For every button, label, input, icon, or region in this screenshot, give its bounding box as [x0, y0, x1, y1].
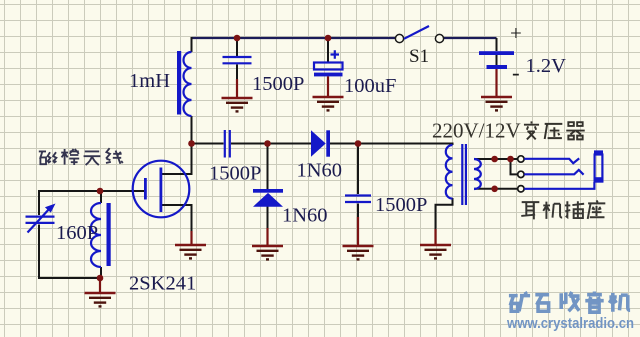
svg-text:1N60: 1N60	[282, 205, 328, 227]
ground under shunt diode	[266, 228, 268, 246]
capacitor 1500P top plates	[223, 57, 252, 63]
ground under FET source	[190, 231, 192, 245]
wire transformer primary bottom	[436, 198, 453, 230]
wire C1 pin from rail	[236, 38, 238, 56]
wire C3 branch down	[357, 144, 359, 195]
wire connector middle branch	[511, 159, 518, 174]
svg-text:+: +	[510, 21, 522, 45]
antenna coil winding	[91, 203, 101, 267]
svg-text:1.2V: 1.2V	[526, 55, 567, 77]
wire mid rail segment dot to series cap	[192, 143, 224, 145]
capacitor 1500P shunt plates	[345, 196, 371, 203]
antenna coil core bar	[107, 203, 111, 266]
switch S1 left terminal	[395, 34, 403, 42]
junction dot secondary bottom	[491, 186, 498, 193]
junction dot D2	[264, 140, 271, 147]
label cizhang antenna text	[39, 148, 123, 165]
switch S1 right terminal	[435, 34, 443, 42]
wire top rail left segment	[192, 37, 396, 39]
inductor 1mH winding	[184, 52, 192, 116]
label headphone jack text	[521, 200, 605, 219]
svg-text:1mH: 1mH	[129, 70, 170, 92]
ground under 100uF	[327, 76, 329, 97]
wire drain pin of FET	[161, 143, 192, 175]
wire top rail right segment to battery	[444, 37, 497, 39]
wire battery stem middle	[496, 55, 498, 65]
transformer secondary winding	[474, 159, 481, 189]
connector circle bottom	[518, 186, 524, 192]
connector circle middle	[518, 171, 524, 177]
svg-text:160P: 160P	[56, 222, 98, 244]
svg-text:1500P: 1500P	[209, 163, 261, 185]
wire mid rail segment cap to diode	[231, 143, 311, 145]
wire secondary top to connector	[474, 158, 518, 160]
capacitor 100uF plates	[314, 63, 343, 70]
transistor channel bar	[160, 168, 163, 213]
transistor gate bar	[144, 178, 147, 200]
svg-text:220V/12V: 220V/12V	[432, 119, 521, 143]
junction dot tank bottom	[97, 275, 104, 282]
watermark kuangshi shouyinji text	[509, 291, 630, 312]
label transformer text	[524, 121, 585, 139]
wire tank top	[39, 190, 145, 192]
junction dot drain rail	[188, 140, 195, 147]
wire C3 to ground	[357, 204, 359, 219]
svg-text:-: -	[512, 60, 520, 85]
svg-text:1500P: 1500P	[375, 194, 427, 216]
connector circle top	[518, 156, 524, 162]
wire D2 to ground	[267, 207, 269, 230]
svg-text:2SK241: 2SK241	[129, 273, 196, 295]
wire vertical from rail to inductor top	[191, 37, 193, 52]
wire coil stubs	[100, 191, 102, 278]
wire battery stem top	[496, 38, 498, 51]
svg-text:1500P: 1500P	[252, 73, 304, 95]
headphone jack sleeve line	[524, 182, 594, 189]
transformer primary winding	[446, 145, 453, 199]
junction dot secondary top a	[491, 156, 498, 163]
capacitor 100uF plus sign	[331, 50, 340, 58]
diode 1N60 series	[311, 130, 326, 156]
ground under 1500P top	[236, 79, 238, 98]
svg-text:S1: S1	[409, 46, 429, 67]
wire mid rail segment diode to transformer	[330, 144, 453, 146]
junction dot secondary top b	[507, 156, 514, 163]
inductor 1mH core bar	[177, 51, 181, 115]
junction dot rail 100uF	[325, 35, 332, 42]
headphone jack plug body	[594, 150, 603, 155]
wire secondary bottom to connector	[474, 188, 518, 190]
wire D2 branch down	[267, 144, 269, 190]
wire 100uF pin from rail	[327, 38, 329, 63]
ground under battery	[495, 69, 497, 97]
junction dot rail C1	[234, 35, 241, 42]
wire tank left upper	[38, 190, 40, 215]
wire C1 pin below	[236, 65, 238, 81]
wire tank bottom	[38, 277, 101, 279]
headphone jack ring contact	[524, 170, 583, 175]
wire inductor bottom to drain junction	[191, 116, 193, 144]
transformer core lines	[462, 144, 466, 205]
svg-text:www.crystalradio.cn: www.crystalradio.cn	[506, 315, 634, 332]
ground under shunt cap	[357, 217, 359, 246]
svg-text:1N60: 1N60	[297, 160, 343, 182]
headphone jack tip contact	[524, 158, 579, 163]
capacitor 1500P series plates	[225, 130, 230, 158]
transistor 2SK241 body circle	[133, 161, 190, 218]
junction dot tank top	[97, 188, 104, 195]
variable capacitor arrow	[28, 208, 51, 233]
battery 1.2V plates	[479, 51, 514, 55]
wire source pin of FET	[161, 205, 192, 232]
svg-text:100uF: 100uF	[344, 75, 396, 97]
diode 1N60 shunt	[253, 189, 283, 193]
wire tank left lower	[38, 225, 40, 280]
variable capacitor 160P plates	[26, 217, 55, 223]
switch S1 blade	[404, 26, 429, 39]
junction dot C3	[355, 140, 362, 147]
ground under tank	[99, 279, 101, 293]
ground under transformer	[434, 229, 436, 245]
